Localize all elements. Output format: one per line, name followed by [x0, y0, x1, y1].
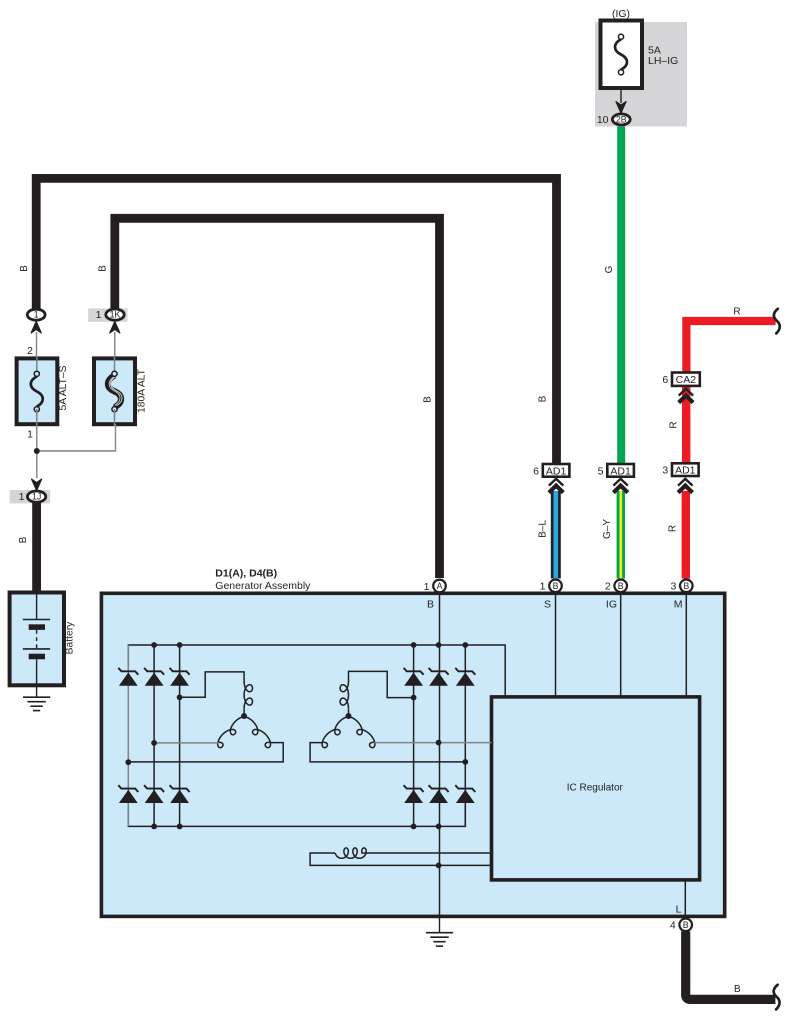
stator left: coil tail to center	[243, 708, 245, 716]
wire diode column 1 right	[413, 645, 415, 826]
zener diode D-R2 top	[429, 668, 449, 686]
stator right: right coil	[349, 717, 375, 748]
arrow into AD1 pin6	[549, 479, 563, 493]
wire M internal	[685, 594, 687, 697]
svg-text:6: 6	[533, 465, 539, 477]
node dot col3R phase	[462, 759, 468, 765]
wire S internal	[555, 594, 557, 697]
wire B thick 1J to battery	[32, 503, 41, 594]
svg-text:B: B	[683, 920, 689, 930]
stator right: left coil	[322, 717, 348, 748]
zener diode D-R3 bottom	[455, 785, 475, 803]
wire B-L (blue/black) AD1 to pin S	[551, 491, 561, 579]
svg-text:L: L	[676, 904, 682, 916]
node dot rail c1R	[411, 642, 417, 648]
zener diode D-L1 bottom	[118, 785, 138, 803]
connector 1J oval	[27, 491, 45, 502]
zener diode D-L3 bottom	[170, 785, 190, 803]
svg-text:1: 1	[96, 309, 102, 321]
wire IG internal	[620, 594, 622, 697]
svg-text:AD1: AD1	[546, 465, 567, 477]
svg-text:5: 5	[598, 465, 604, 477]
node dot neg c2R	[436, 824, 442, 830]
connector AD1 pin 3	[672, 463, 699, 476]
arrow into AD1 pin5	[613, 479, 627, 493]
wire break curl (red wire)	[774, 309, 780, 334]
svg-text:B: B	[538, 395, 549, 402]
wire G-Y (green/yellow) AD1 to pin IG	[617, 491, 625, 579]
fuse 5A LH-IG box	[601, 21, 643, 89]
svg-text:1: 1	[424, 581, 430, 593]
stator left: left coil	[218, 717, 244, 748]
zener diode D-R1 bottom	[404, 785, 424, 803]
arrow into AD1 pin3	[678, 479, 692, 493]
svg-text:R: R	[668, 525, 679, 532]
stator right: phase wire to IC	[374, 742, 491, 744]
rectifier negative rail	[128, 806, 465, 826]
wire G green vertical	[617, 127, 625, 465]
rotor coil	[335, 848, 366, 858]
svg-text:B: B	[18, 536, 29, 543]
node dot rotor/B	[436, 863, 442, 869]
svg-text:AD1: AD1	[610, 465, 631, 477]
connector AD1 pin 6	[543, 464, 570, 477]
wire B thick: connector 1K over to generator pin A	[115, 218, 440, 578]
arrow into 2B	[616, 102, 626, 113]
stator left: phase wire to col2	[154, 742, 219, 744]
svg-text:2: 2	[27, 345, 33, 357]
svg-text:Battery: Battery	[65, 621, 76, 654]
wire R AD1 to pin M	[682, 491, 690, 579]
node dot col3L phase	[177, 694, 183, 700]
arrow into CA2	[679, 389, 693, 403]
svg-text:2B: 2B	[616, 114, 627, 124]
junction dot	[34, 448, 40, 454]
pin S circle	[549, 580, 562, 593]
svg-text:1: 1	[19, 491, 25, 503]
zener diode D-L1 top	[118, 668, 138, 686]
svg-text:R: R	[733, 307, 740, 318]
svg-text:1J: 1J	[32, 492, 41, 502]
svg-text:B: B	[618, 581, 624, 591]
junction block J/B gray box	[595, 22, 687, 127]
svg-text:B: B	[427, 599, 434, 611]
connector CA2 pin 6	[672, 373, 700, 386]
svg-text:6: 6	[662, 374, 668, 386]
svg-text:5A ALT–S: 5A ALT–S	[58, 365, 69, 410]
node dot rail c3R	[462, 642, 468, 648]
zener diode D-R2 bottom	[429, 785, 449, 803]
wire junction to fusible link	[37, 424, 116, 451]
fusible link 180A ALT box	[94, 356, 135, 426]
battery box	[10, 592, 64, 685]
wire break curl (bottom B wire)	[774, 985, 780, 1010]
ground (battery)	[23, 697, 50, 710]
svg-text:G–Y: G–Y	[602, 519, 613, 539]
wire B to chassis ground	[439, 916, 441, 933]
zener diode D-L2 bottom	[144, 785, 164, 803]
wire diode column 3 left	[179, 645, 181, 826]
connector 1K oval	[106, 309, 124, 320]
stator right: center node	[346, 713, 352, 719]
pin A circle	[433, 580, 446, 593]
svg-text:180A ALT: 180A ALT	[137, 368, 148, 413]
wire diode column 1 left	[127, 645, 129, 826]
svg-text:B: B	[734, 984, 741, 995]
svg-text:10: 10	[597, 114, 609, 126]
zener diode D-R3 top	[455, 668, 475, 686]
svg-text:B: B	[19, 265, 30, 272]
svg-text:B: B	[423, 396, 434, 403]
svg-text:D1(A), D4(B): D1(A), D4(B)	[215, 568, 277, 580]
node dot neg c2L	[151, 824, 157, 830]
svg-text:B: B	[98, 265, 109, 272]
connector 1J gray tag	[10, 490, 51, 503]
connector AD1 pin 5	[607, 464, 634, 477]
wire connector1 to fuse pin 2	[36, 332, 38, 358]
svg-text:S: S	[544, 599, 551, 611]
svg-text:3: 3	[670, 581, 676, 593]
wire B thick: connector 1 up over to AD1	[36, 178, 556, 464]
svg-text:IC Regulator: IC Regulator	[567, 783, 624, 794]
svg-text:(IG): (IG)	[612, 8, 630, 20]
zener diode D-L3 top	[170, 668, 190, 686]
svg-text:M: M	[674, 599, 683, 611]
wire B thick bottom right	[686, 932, 776, 1000]
rectifier positive rail	[128, 645, 505, 697]
wire L internal	[684, 879, 686, 916]
wire fuse to connector 2B	[620, 88, 622, 103]
stator left: center node	[241, 713, 247, 719]
stator left: right phase bend	[128, 743, 283, 762]
connector 1 oval	[27, 309, 45, 320]
svg-text:4: 4	[670, 920, 676, 932]
zener diode D-L2 top	[144, 668, 164, 686]
pin M circle	[680, 580, 693, 593]
svg-text:1: 1	[34, 310, 39, 320]
wire B internal	[439, 594, 441, 916]
stator left: top coil	[244, 682, 252, 709]
wire battery to ground	[36, 685, 38, 697]
svg-text:2: 2	[605, 581, 611, 593]
svg-text:B: B	[683, 581, 689, 591]
wire R top horizontal	[686, 321, 775, 373]
stator left: phase lead staircase	[180, 672, 245, 697]
svg-text:1K: 1K	[110, 310, 121, 320]
node dot col1R phase	[411, 695, 417, 701]
stator right: coil tail to center	[348, 708, 350, 716]
svg-text:B: B	[553, 581, 559, 591]
node dot neg c3L	[177, 824, 183, 830]
zener diode D-R1 top	[404, 668, 424, 686]
node dot rail c3L	[177, 642, 183, 648]
arrow into 1J	[32, 479, 42, 490]
svg-text:LH–IG: LH–IG	[648, 55, 678, 67]
stator right: left phase bend	[310, 743, 465, 762]
node dot rail c2R	[436, 642, 442, 648]
svg-text:A: A	[437, 581, 443, 591]
svg-text:Generator Assembly: Generator Assembly	[215, 580, 311, 592]
wire diode column 2 left	[153, 645, 155, 826]
pin L circle	[679, 919, 692, 932]
arrow into connector 1K	[110, 322, 120, 333]
generator assembly D1(A),D4(B) box	[101, 593, 724, 916]
ground (generator)	[426, 933, 453, 946]
node dot col2L phase	[151, 740, 157, 746]
svg-text:B–L: B–L	[538, 520, 549, 538]
wire R CA2 to AD1	[682, 386, 690, 463]
node dot neg c1R	[411, 824, 417, 830]
fuse 5A ALT-S box	[17, 356, 58, 426]
wire 1K to fusible link	[114, 332, 116, 358]
rotor coil loop	[310, 853, 491, 865]
node dot col2R phase (B line)	[436, 740, 442, 746]
svg-text:IG: IG	[606, 599, 617, 611]
svg-text:1: 1	[540, 581, 546, 593]
connector 1K gray tag	[88, 308, 127, 321]
svg-text:G: G	[604, 265, 615, 273]
arrow into connector 1	[31, 322, 41, 333]
IC regulator U1 box	[492, 697, 700, 880]
connector 2B	[612, 114, 630, 125]
wire diode column 3 right	[464, 645, 466, 826]
svg-text:CA2: CA2	[676, 374, 697, 386]
node dot col1L phase	[125, 759, 131, 765]
svg-text:R: R	[669, 421, 680, 428]
wire fuse1 down to junction	[36, 424, 38, 478]
node dot rail c2L	[151, 642, 157, 648]
pin IG circle	[614, 580, 627, 593]
stator left: right coil	[244, 717, 270, 748]
svg-text:1: 1	[27, 429, 33, 441]
stator right: phase lead staircase	[349, 671, 414, 697]
svg-text:3: 3	[662, 465, 668, 477]
svg-text:AD1: AD1	[675, 465, 696, 477]
stator right: top coil	[340, 682, 348, 709]
